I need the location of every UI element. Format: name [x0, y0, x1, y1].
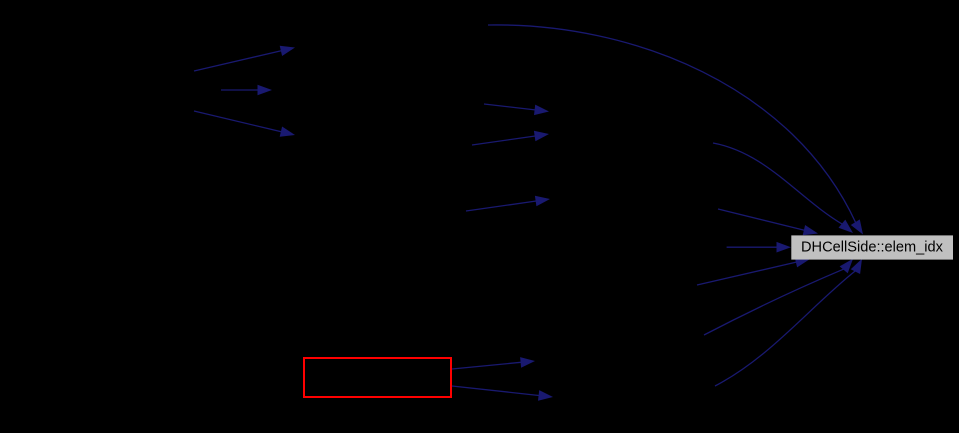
edge N: red box to middle invisible node — [452, 357, 535, 369]
edge C: left node to lower-middle node — [194, 111, 295, 137]
node: red highlighted box (current function, label hidden) — [304, 358, 451, 397]
edge E: middle node to right invisible node — [472, 131, 549, 145]
edge H: curve into top of DHCellSide::elem_idx — [713, 143, 853, 233]
edge B: left node to middle node (horizontal) — [221, 85, 272, 96]
edge G: long top curve into top of DHCellSide::elem_idx — [488, 25, 863, 235]
edge J: horizontal line into left side of DHCellSide::elem_idx — [727, 242, 791, 253]
edge L: curve into bottom of DHCellSide::elem_idx — [704, 259, 853, 335]
edge O: red box to middle invisible node — [452, 386, 553, 401]
node DHCellSide::elem_idx (grey filled box) — [791, 235, 953, 259]
edge I: line into top-left of DHCellSide::elem_idx — [718, 209, 818, 235]
svg-text:DHCellSide::elem_idx: DHCellSide::elem_idx — [801, 239, 944, 255]
edge K: line into bottom-left of DHCellSide::elem_idx — [697, 257, 810, 285]
edge F: middle node to right invisible node — [466, 196, 550, 211]
edge M: curve into bottom of DHCellSide::elem_idx — [715, 259, 862, 386]
edge D: middle node to right invisible node — [484, 104, 549, 115]
edge A: left node to upper-middle node — [194, 46, 295, 71]
